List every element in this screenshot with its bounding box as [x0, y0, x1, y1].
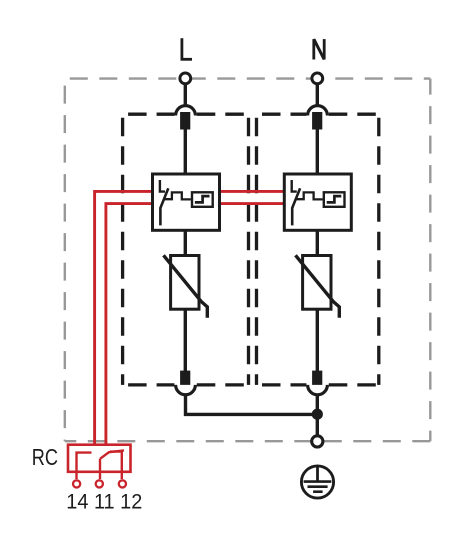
junction dot	[312, 409, 323, 420]
RC contact 11 lead (common)	[99, 459, 101, 479]
plug pin contact, module 1 bottom	[180, 371, 190, 386]
plug pin contact, module 2 bottom	[312, 371, 322, 386]
U2 disconnect blade	[292, 188, 300, 225]
thermal disconnector U2 box	[284, 174, 351, 230]
protection module 2 enclosure (black dashed, N path)	[257, 114, 379, 385]
wire pin to disconnector U1	[184, 129, 187, 176]
wire L terminal to plug contact	[184, 80, 187, 107]
protection module 1 enclosure (black dashed, L path)	[123, 114, 249, 385]
RC contact 12 lead	[110, 452, 122, 479]
RC contact arm	[100, 450, 124, 458]
socket arc at module 2 bottom	[308, 385, 328, 395]
ground terminal circle	[312, 436, 323, 447]
U2 signal box	[324, 192, 345, 207]
U1 signal box	[192, 192, 213, 207]
socket arc at module 2 top	[308, 106, 328, 116]
wire varistor RV2 to bottom plug	[316, 309, 319, 372]
protective earth symbol circle	[301, 466, 333, 498]
U2 trip linkage zigzag	[296, 192, 323, 199]
RC contact 14 lead	[77, 453, 92, 479]
U2 signal step symbol	[327, 196, 342, 202]
label L	[181, 38, 193, 59]
remote-signalling wire (red), between module 1 and module 2, lower	[220, 202, 285, 205]
wire module 1 bottom to earth junction	[186, 395, 318, 415]
svg-text:RC: RC	[32, 445, 58, 471]
RC remote contact box	[68, 445, 131, 472]
device outline (outer gray dashed enclosure)	[65, 79, 431, 442]
earth bar 3	[313, 490, 323, 493]
RC terminal circle 14	[73, 480, 80, 487]
RC terminal circle 12	[119, 480, 126, 487]
varistor RV1 body	[171, 256, 199, 310]
thermal disconnector U1 box	[153, 174, 220, 230]
U1 disconnect blade	[160, 188, 168, 225]
socket arc at module 1 top	[176, 106, 196, 116]
wire varistor RV1 to bottom plug	[184, 309, 187, 372]
wire disconnector U2 to varistor RV2	[316, 229, 319, 257]
earth bar 2	[308, 485, 328, 488]
remote-signalling wire (red), lower run to RC	[106, 204, 153, 445]
svg-text:14 11 12: 14 11 12	[66, 491, 142, 514]
U2 contact hook	[292, 180, 297, 192]
varistor RV2 diagonal arrow	[296, 255, 340, 317]
wire module 2 bottom to ground terminal	[316, 395, 319, 437]
wire N terminal to plug contact	[316, 80, 319, 107]
terminal N circle	[312, 73, 323, 84]
remote-signalling wire (red), upper run to RC	[95, 191, 153, 445]
plug pin contact, module 1 top	[180, 112, 190, 130]
remote-signalling wire (red), between module 1 and module 2, upper	[220, 190, 285, 193]
wire disconnector U1 to varistor RV1	[184, 229, 187, 257]
RC terminal circle 11	[96, 480, 103, 487]
U1 contact hook	[160, 180, 165, 192]
varistor RV1 diagonal arrow	[164, 255, 208, 317]
U1 signal step symbol	[195, 196, 210, 202]
plug pin contact, module 2 top	[312, 112, 322, 130]
label N	[314, 39, 324, 59]
earth stem	[316, 465, 319, 481]
wire pin to disconnector U2	[316, 129, 319, 176]
terminal L circle	[180, 73, 191, 84]
U1 trip linkage zigzag	[164, 192, 191, 199]
earth bar 1	[304, 480, 332, 483]
socket arc at module 1 bottom	[176, 385, 196, 395]
varistor RV2 body	[303, 256, 331, 310]
